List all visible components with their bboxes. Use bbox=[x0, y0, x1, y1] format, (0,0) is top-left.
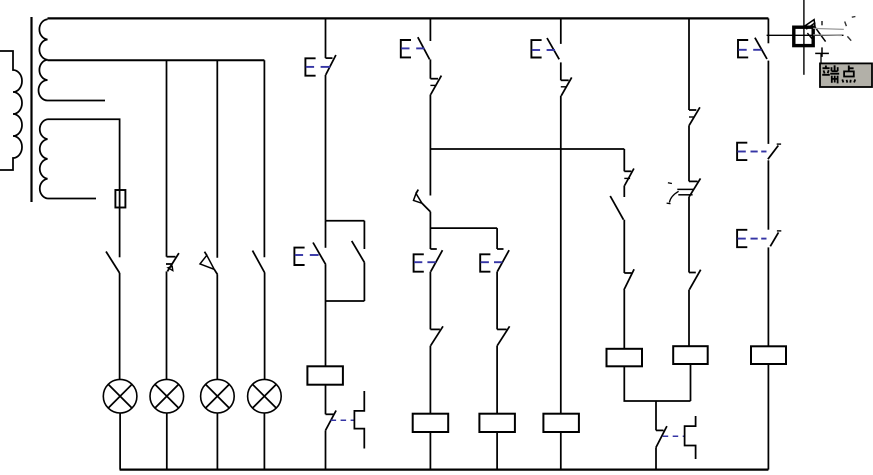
pushbutton SB9 bbox=[737, 230, 781, 247]
wire branch-10 from top rail bbox=[688, 18, 690, 110]
wire switch to lamp 1 bbox=[119, 273, 121, 379]
plus mark bbox=[815, 21, 829, 63]
lamp H1 bbox=[103, 379, 137, 413]
switch Q5 (arrow contact) bbox=[414, 190, 431, 212]
wire coil KM6 to bottom rail bbox=[767, 364, 769, 470]
wire SB4 to contact bbox=[429, 272, 431, 330]
contact KM2 aux bbox=[430, 326, 443, 345]
switch Q3 (arrow contact) bbox=[200, 252, 218, 275]
contact KM3 aux bbox=[497, 326, 510, 345]
wire contact to coil KM3 bbox=[496, 346, 498, 414]
wire fuse to switch bbox=[119, 208, 121, 258]
linkage dashes KM1 bbox=[331, 419, 355, 421]
transformer T1 core bbox=[30, 17, 32, 202]
limit switch SQ1 (slow action) bbox=[667, 178, 701, 203]
wire branch-5 to bottom rail bbox=[325, 430, 327, 469]
wire branch-11 from top rail bbox=[767, 18, 769, 43]
pushbutton SB3 bbox=[401, 37, 430, 59]
wire SB3 to contact bbox=[429, 59, 431, 78]
wire coil KM4 to bottom rail bbox=[560, 432, 562, 470]
tooltip text 点 (drawn strokes) bbox=[842, 66, 855, 83]
wire branch-6 from top rail bbox=[429, 18, 431, 41]
wire to switch bbox=[623, 186, 625, 198]
wire SB1 to parallel group bbox=[325, 75, 327, 221]
wire coil KM5 to node C bbox=[690, 364, 692, 401]
contact FR3 (NC ticked) bbox=[689, 107, 700, 125]
wire coil KT1 to node C bbox=[624, 366, 690, 401]
wire branch-5 from top rail bbox=[325, 18, 327, 58]
wire branch-9 from node A bbox=[623, 149, 625, 171]
coil KM3 bbox=[479, 414, 515, 432]
coil KM1 bbox=[307, 366, 343, 384]
coil KM5 bbox=[673, 346, 708, 364]
wire SB9 to coil KM6 bbox=[767, 247, 769, 346]
contact FR2 (NC ticked) bbox=[561, 77, 572, 95]
wire lamp branch 2 top bbox=[166, 60, 168, 256]
wire SB7 to pushbutton SB8 bbox=[767, 61, 769, 144]
wire parallel left lower bbox=[325, 265, 327, 301]
snap marker bbox=[804, 20, 825, 42]
wire secondary-1 bottom stub bbox=[48, 100, 106, 102]
wire node C drop bbox=[655, 401, 657, 430]
wire parallel right upper bbox=[363, 221, 365, 249]
pushbutton SB2 bbox=[294, 243, 325, 266]
pushbutton SB7 bbox=[738, 38, 767, 59]
coil KM4 bbox=[543, 414, 579, 432]
tooltip box bbox=[820, 63, 872, 87]
wire lamp 3 to bottom rail bbox=[216, 413, 218, 470]
contact KA1 linked NC bbox=[656, 426, 667, 447]
pushbutton SB5 bbox=[480, 249, 509, 272]
wire node B horizontal (to x=497) bbox=[430, 227, 497, 229]
wire switch to lamp 4 bbox=[264, 273, 266, 379]
wire parallel right lower bbox=[363, 262, 365, 301]
wire SB6 to contact bbox=[560, 62, 562, 80]
wire lamp 4 to bottom rail bbox=[263, 413, 265, 470]
switch Q6 bbox=[610, 196, 623, 220]
wire contact to coil KM2 bbox=[429, 346, 431, 414]
pushbutton SB8 bbox=[737, 143, 781, 160]
wire contact to coil KM5 bbox=[688, 290, 690, 347]
contact KM1 aux (seal-in) bbox=[352, 241, 365, 263]
contact KT1 (NC ticked) bbox=[624, 169, 634, 186]
transformer T1 secondary winding 1 (tapped) bbox=[39, 19, 48, 100]
transformer T1 secondary winding 2 bbox=[40, 119, 48, 198]
bottom supply rail bbox=[120, 469, 769, 471]
coil KM6 bbox=[751, 346, 786, 364]
wire parallel left upper bbox=[325, 221, 327, 248]
lamp H2 bbox=[150, 379, 184, 413]
wire SB5 to contact bbox=[496, 272, 498, 330]
pushbutton SB6 bbox=[531, 38, 559, 59]
wire coil KM3 to bottom rail bbox=[496, 432, 498, 470]
wire lamp branch 3 top bbox=[216, 60, 218, 257]
wire lamp 1 to bottom rail bbox=[119, 413, 121, 470]
lamp H4 bbox=[248, 379, 282, 413]
contact FR1 (NC ticked) bbox=[430, 76, 441, 95]
transformer T1 primary winding bbox=[0, 51, 22, 170]
contact KM1 linked NC bbox=[326, 411, 337, 431]
contact KM4 aux (NC ticked) bbox=[624, 269, 634, 290]
tooltip text 端 (drawn strokes) bbox=[822, 65, 839, 83]
wire lamp 2 to bottom rail bbox=[166, 413, 168, 470]
switch Q1 bbox=[106, 252, 120, 274]
wire lamp branch 1 top bbox=[48, 119, 120, 190]
wire parallel group bottom connector bbox=[326, 300, 365, 302]
wire limit switch to contact bbox=[688, 197, 690, 273]
wire coil KM1 to contact bbox=[325, 385, 327, 415]
switch Q4 bbox=[253, 251, 265, 273]
wire switch to lamp 2 bbox=[166, 271, 168, 379]
fuse FU1 bbox=[115, 190, 125, 208]
wire node A horizontal (to x=624) bbox=[430, 148, 624, 150]
cursor crosshair bbox=[767, 0, 844, 75]
contact KM1 linked element bbox=[354, 391, 364, 449]
coil KM2 bbox=[413, 414, 449, 432]
wire lamp branch 4 top bbox=[263, 60, 265, 257]
wire contact to coil KM4 bbox=[560, 96, 562, 414]
switch Q2 (flag contact) bbox=[166, 253, 179, 271]
linkage dashes KA1 bbox=[663, 435, 685, 437]
second supply rail bbox=[48, 59, 265, 61]
wire coil KM2 to bottom rail bbox=[429, 432, 431, 470]
wire drop to bottom rail bbox=[655, 447, 657, 469]
wire contact to limit switch bbox=[688, 125, 690, 181]
wire branch-8 from top rail bbox=[560, 18, 562, 44]
wire branch-7 from node B bbox=[496, 228, 498, 249]
wire SB8 to pushbutton SB9 bbox=[767, 160, 769, 229]
wire switch to contact bbox=[623, 220, 625, 273]
wire contact to node A bbox=[429, 95, 431, 196]
contact KM5 aux (NC ticked) bbox=[689, 270, 701, 290]
wire contact to coil KT1 bbox=[623, 290, 625, 349]
top supply rail bbox=[48, 17, 769, 19]
wire to node B bbox=[429, 212, 431, 249]
coil KT1 bbox=[607, 349, 643, 367]
wire to coil KM1 bbox=[325, 301, 327, 366]
ghost preview lines bbox=[813, 28, 844, 35]
pushbutton SB1 bbox=[305, 55, 336, 76]
cursor aperture box bbox=[794, 27, 813, 45]
pushbutton SB4 bbox=[414, 249, 443, 272]
lamp H3 bbox=[201, 379, 235, 413]
contact KA1 linked element bbox=[685, 416, 696, 459]
wire parallel group top connector bbox=[326, 220, 365, 222]
ghost dashes right bbox=[845, 17, 856, 41]
wire secondary-2 bottom stub bbox=[48, 198, 97, 200]
wire switch to lamp 3 bbox=[216, 275, 218, 380]
